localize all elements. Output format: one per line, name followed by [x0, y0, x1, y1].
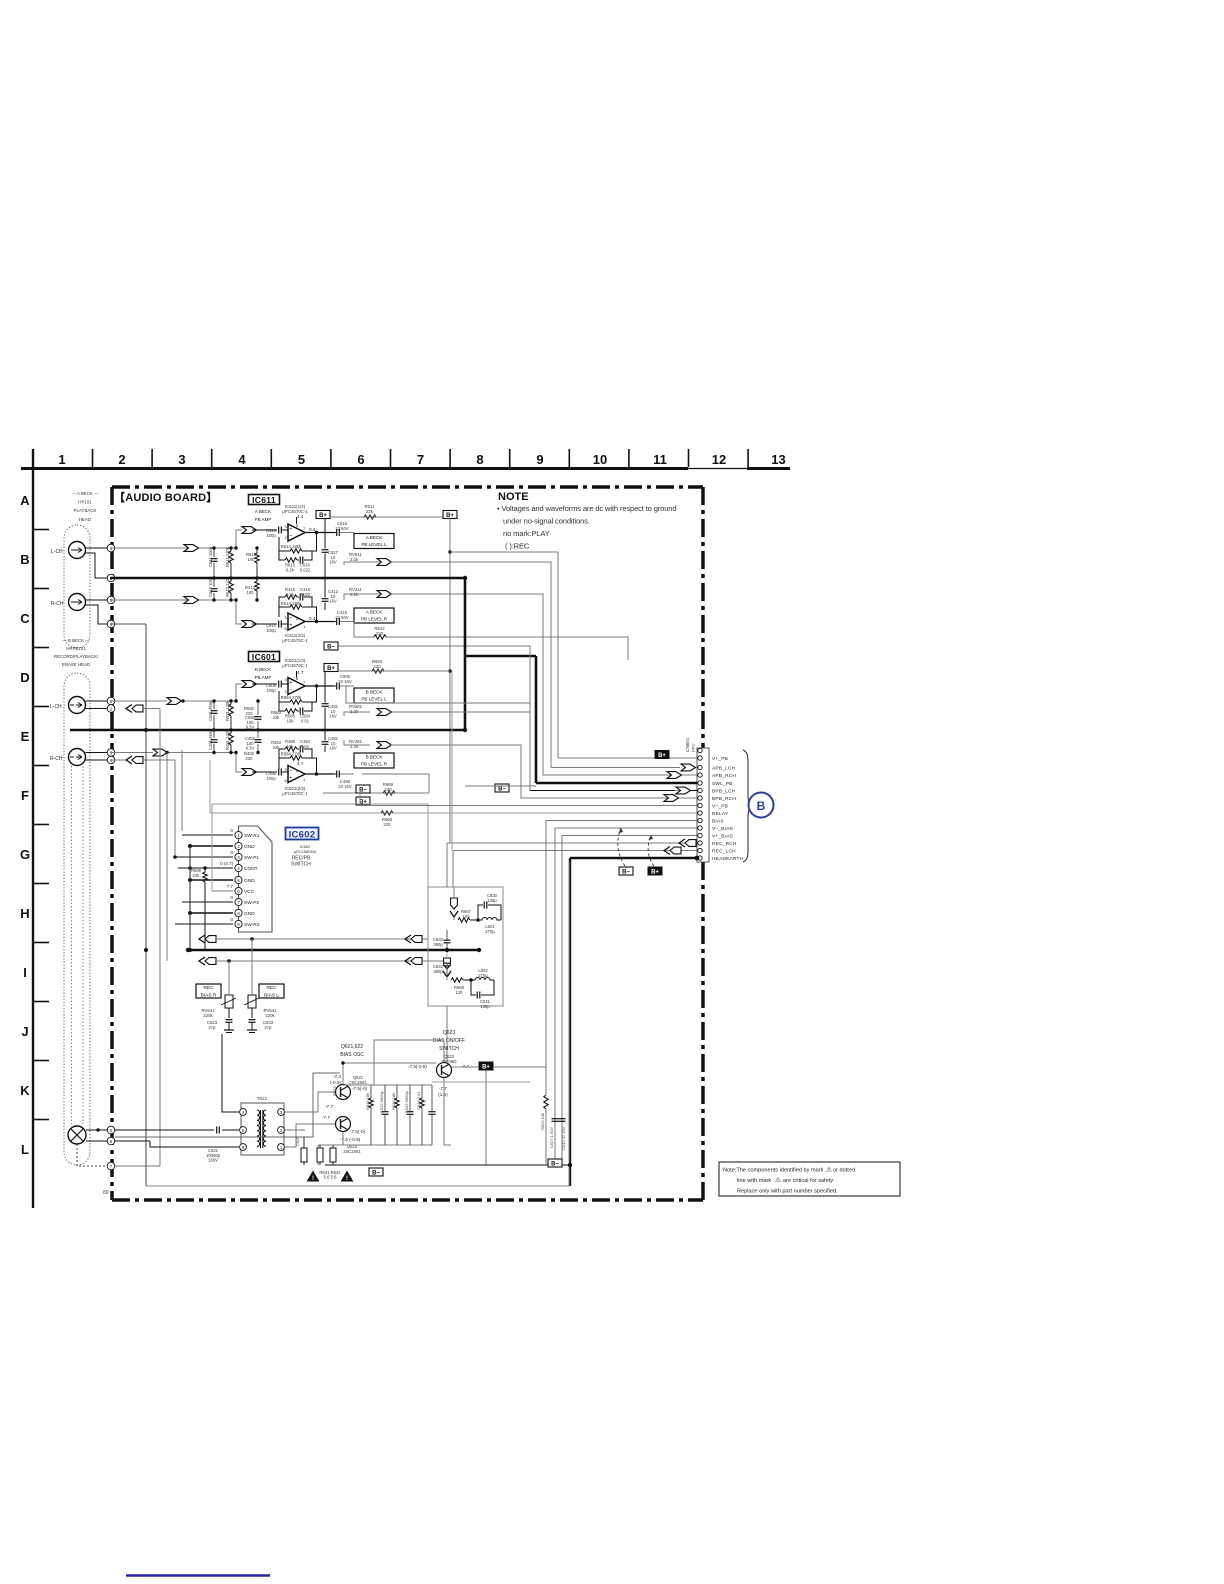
wire V+_PB vertical [557, 552, 559, 758]
svg-text:SW-R1: SW-R1 [244, 833, 260, 839]
svg-text:2.2k: 2.2k [350, 557, 359, 562]
connector pin V-_PB [698, 803, 702, 807]
thick ground bus row B [110, 577, 465, 580]
wire V+_BIAS [562, 836, 697, 1166]
wire to op-amp input [214, 530, 242, 548]
supply tag B+ at connector [655, 751, 669, 759]
svg-text:0.4: 0.4 [309, 616, 316, 621]
svg-text:RECORD/PLAYBACK/: RECORD/PLAYBACK/ [54, 654, 99, 659]
connector pin RELAY [698, 811, 702, 815]
IC602 body [239, 826, 273, 932]
svg-text:BIAS: BIAS [712, 819, 724, 825]
thick ground bus vertical [464, 578, 467, 730]
svg-text:0.01: 0.01 [301, 744, 310, 749]
wire bias osc to Q623 [374, 1040, 444, 1085]
audio board dash-dot border right upper [701, 487, 705, 748]
T621 pin 6 [240, 1144, 247, 1151]
svg-text:2SA950: 2SA950 [442, 1059, 458, 1064]
svg-text:R625 18k: R625 18k [365, 1093, 370, 1110]
svg-text:100p: 100p [266, 776, 276, 781]
IC602 pin CONT. [235, 864, 242, 871]
wire RV641 bottom [228, 1008, 230, 1018]
resistor R415 6.2k [285, 595, 297, 599]
ground C633 [247, 1029, 257, 1031]
signal arrow BPB_LCH [676, 787, 691, 794]
wire BPB_LCH staircase [530, 646, 681, 791]
svg-text:B+: B+ [482, 1064, 490, 1070]
wire pin4 to bus [143, 759, 175, 761]
IC602 pin SW-P2 [235, 898, 242, 905]
resistor R485 15k [285, 747, 297, 751]
svg-text:2: 2 [118, 452, 125, 467]
signal arrow down rec R [444, 958, 451, 969]
wire HEADEARTH thick [570, 857, 697, 859]
svg-text:C625 6800p: C625 6800p [404, 1090, 409, 1113]
svg-text:K: K [20, 1083, 30, 1098]
svg-text:B−: B− [551, 1161, 559, 1167]
svg-text:V−_BIAS: V−_BIAS [712, 826, 733, 832]
resistor R612 220 [374, 635, 386, 639]
board pin 3 rec [107, 749, 115, 757]
supply tag B+ IC601 [324, 664, 338, 672]
wire pin2 to bus [143, 708, 160, 710]
wire V+ PB feed [450, 551, 558, 553]
svg-text:100: 100 [248, 557, 256, 562]
wire rec pin1 to arrow [110, 700, 167, 702]
signal arrow IC601 R input [242, 769, 257, 776]
svg-text:(1.5): (1.5) [438, 1092, 448, 1097]
svg-text:BIAS L: BIAS L [264, 992, 279, 998]
svg-text:or dotted: or dotted [833, 1168, 855, 1174]
wire IC602 SW-P2 [182, 901, 233, 903]
svg-text:BIAS ON/OFF: BIAS ON/OFF [433, 1038, 465, 1044]
erase head coil [68, 1126, 86, 1144]
bus wire from rec R [166, 753, 168, 962]
capacitor C412 10 16V [322, 598, 329, 600]
svg-text:89: 89 [103, 1190, 109, 1196]
svg-text:4: 4 [238, 452, 246, 467]
board pin 1 [107, 544, 115, 552]
wire APB_RCH staircase [389, 594, 672, 775]
signal arrow PB LEVEL L out [377, 559, 392, 566]
signal arrow IC601 L input [242, 681, 257, 688]
svg-text:-7.7: -7.7 [325, 1104, 333, 1109]
wire T621 pin6 [150, 1141, 239, 1147]
board pin 7 shield [107, 1162, 115, 1170]
IC602 pin SW-R2 [235, 920, 242, 927]
grid row tick [33, 647, 49, 649]
svg-text:R623: R623 [332, 1086, 337, 1096]
playback head R-CH coil [69, 594, 86, 611]
signal arrow APB_LCH [681, 764, 696, 771]
svg-text:F: F [21, 788, 29, 803]
label box A BECK PB LEVEL L [354, 534, 394, 549]
svg-text:BPB_RCH: BPB_RCH [712, 796, 736, 802]
wire B- rail to x530 [338, 645, 530, 647]
filter network outline [428, 887, 503, 1006]
svg-text:R611 120k: R611 120k [225, 546, 230, 567]
svg-text:V+_PB: V+_PB [712, 756, 728, 762]
capacitor C481 10 16V [322, 703, 329, 705]
svg-text:IC611: IC611 [252, 495, 276, 505]
wire IC602 GND 2 [190, 845, 233, 847]
svg-text:11: 11 [653, 452, 667, 467]
capacitor C416 0.022 [299, 594, 301, 601]
wire rec L-CH to pin 1 [86, 700, 111, 702]
bias osc feedback rails [343, 1084, 432, 1086]
svg-text:15k: 15k [287, 744, 295, 749]
wire C415 down [354, 622, 374, 638]
wire erase return [115, 1140, 150, 1142]
T621 pin 3 [278, 1109, 285, 1116]
connector pin 0 [698, 748, 702, 752]
bus wire from rec pin4 [174, 760, 176, 855]
op-amp supply lead IC601 [296, 671, 298, 678]
wire C613 to op-amp [282, 529, 288, 531]
connector pin APB_RCH [698, 773, 702, 777]
capacitor C632 390p upper [446, 934, 448, 938]
signal arrow rec R [153, 749, 168, 756]
grid column tick [211, 449, 213, 467]
svg-text:4.7: 4.7 [297, 761, 304, 766]
potentiometer RV641 220k [225, 995, 233, 1008]
svg-text:SW-P2: SW-P2 [244, 900, 259, 906]
signal arrow rec L [167, 698, 182, 705]
svg-text:0.01: 0.01 [301, 719, 310, 724]
inverting input wire IC601L [279, 691, 285, 711]
wire rec path R [216, 960, 447, 962]
rail wire mid 1 [451, 671, 453, 851]
svg-text:B+: B+ [446, 513, 454, 519]
wire T621 to Q621 base [285, 1092, 335, 1112]
wire C608 to op-amp [282, 683, 288, 685]
thick ground bus row D [70, 729, 465, 732]
wire to C631 [471, 980, 476, 995]
svg-text:2SC2061: 2SC2061 [349, 1080, 367, 1085]
connector pin SWL_PB [698, 781, 702, 785]
feedback node wire R [312, 607, 317, 622]
wire RV541 top [251, 939, 253, 995]
svg-text:+: + [289, 623, 292, 629]
svg-text:3: 3 [178, 452, 185, 467]
wire RV581 wiper [344, 712, 370, 716]
wire IC601R out [362, 774, 429, 793]
wire L-CH to pin 1 [86, 547, 111, 549]
svg-text:4.7: 4.7 [297, 670, 304, 675]
grid row tick [33, 1001, 49, 1003]
capacitor C415 22 50V output [336, 618, 338, 625]
audio board dash-dot border right lower [701, 862, 705, 1200]
svg-text:APB_LCH: APB_LCH [712, 766, 736, 772]
svg-text:C626 6800p: C626 6800p [379, 1090, 384, 1113]
grid column tick [270, 449, 272, 467]
svg-text:B+: B+ [327, 666, 335, 672]
connector pin V+_PB [698, 756, 702, 760]
connector destination circled B [749, 793, 774, 818]
svg-text:B−: B− [359, 787, 367, 793]
label box B BECK PB LEVEL L [354, 688, 394, 703]
grid row tick [33, 765, 49, 767]
svg-text:16V: 16V [329, 714, 337, 719]
grid column tick [92, 449, 94, 467]
capacitor C581 390p shunt [211, 710, 218, 712]
svg-text:6.3V: 6.3V [246, 725, 255, 730]
svg-text:IC602: IC602 [289, 830, 316, 841]
connector pin HEADEARTH [698, 856, 702, 860]
resistor R584 270k [290, 700, 302, 704]
supply tag B- near C627 [548, 1159, 562, 1167]
svg-text:( ):REC: ( ):REC [505, 542, 530, 551]
svg-text:⚠: ⚠ [775, 1176, 781, 1184]
capacitor C611 input shunt [211, 558, 218, 560]
svg-text:B: B [757, 799, 766, 813]
wire arrow to C614 [252, 623, 277, 625]
svg-text:SWL_PB: SWL_PB [712, 781, 733, 787]
wire BIAS [546, 821, 697, 1068]
wire IC602 SW-R1 [182, 834, 233, 836]
svg-text:220: 220 [383, 822, 391, 827]
svg-text:220k: 220k [203, 1013, 213, 1018]
signal arrow rec L return [126, 705, 132, 713]
wire REC_LCH down [452, 851, 454, 888]
op-amp IC601 1/2 [288, 678, 305, 695]
svg-text:L-CH: L-CH [50, 704, 62, 710]
svg-text:135p: 135p [480, 1004, 490, 1009]
svg-text:• Voltages and waveforms are d: • Voltages and waveforms are dc with res… [497, 504, 676, 513]
inverting input wire [279, 537, 285, 560]
svg-text:135p: 135p [487, 898, 497, 903]
wire pin1 to arrow [110, 547, 184, 549]
svg-text:R626 18k: R626 18k [391, 1093, 396, 1110]
svg-text:【AUDIO BOARD】: 【AUDIO BOARD】 [114, 491, 217, 504]
IC602 pin VCC [235, 887, 242, 894]
capacitor C627 1 50V [552, 1118, 559, 1120]
svg-text:are critical for safety.: are critical for safety. [783, 1178, 835, 1184]
left margin rule [32, 449, 34, 1208]
feedback branch wire [304, 551, 312, 560]
svg-text:390p: 390p [433, 942, 443, 947]
svg-text:⚠: ⚠ [826, 1166, 832, 1174]
resistor R613 100 [255, 553, 259, 563]
svg-text:RELAY: RELAY [712, 811, 729, 817]
capacitor C482b 10 16V [322, 741, 329, 743]
capacitor C631 135p [476, 992, 478, 999]
bus wire from rec pin2 [159, 709, 161, 1167]
svg-text:GND: GND [244, 878, 255, 884]
connector pin BPB_RCH [698, 796, 702, 800]
svg-text:PLAYBACK: PLAYBACK [74, 508, 97, 513]
svg-text:NOTE: NOTE [498, 491, 529, 503]
supply tag B+ jumper [648, 867, 662, 875]
feedback node wire IC601R [312, 758, 317, 774]
wire HEADEARTH vertical thick [569, 858, 571, 1186]
IC601 R output wire [305, 773, 334, 775]
svg-text:SW-R2: SW-R2 [244, 922, 260, 928]
feedback node wire IC601L [312, 686, 317, 702]
wire rec R-CH to pin 3 [86, 752, 111, 754]
board pin 4 [107, 620, 115, 628]
label box B BECK PB LEVEL R [354, 753, 394, 768]
svg-text:−: − [289, 768, 292, 774]
transformer T621 core [260, 1110, 262, 1148]
svg-text:A BECK: A BECK [255, 509, 271, 514]
op-amp IC611 2/2 [288, 613, 305, 630]
capacitor C481 390p shunt [211, 739, 218, 741]
grid column tick [449, 449, 451, 467]
supply tag B- bias bottom [369, 1168, 383, 1176]
svg-text:line with mark: line with mark [737, 1178, 771, 1184]
capacitor C623 27p [226, 1019, 233, 1021]
coil L602 270u [471, 978, 494, 981]
svg-text:B BECK: B BECK [255, 667, 272, 672]
ground C623 [224, 1029, 234, 1031]
wire RELAY vertical [209, 760, 211, 813]
wire V-_BIAS [555, 828, 697, 1165]
svg-text:220: 220 [376, 631, 384, 636]
board pin 4 rec [107, 756, 115, 764]
wire to IC601 R input [214, 753, 242, 773]
resistor R614 180k [290, 549, 302, 553]
junction filter mid [445, 948, 449, 952]
board pin 1 rec [107, 697, 115, 705]
signal arrow PB R input [242, 621, 257, 628]
svg-text:μPC4570C-1: μPC4570C-1 [282, 638, 308, 643]
svg-text:Replace only with part number: Replace only with part number specified. [737, 1189, 838, 1195]
supply tag B+ bias switch [479, 1062, 493, 1070]
wire erase head feed [115, 1073, 340, 1137]
svg-text:+: + [289, 526, 292, 532]
T621 pin 4 [240, 1109, 247, 1116]
svg-text:0.022: 0.022 [300, 568, 311, 573]
svg-text:4.4: 4.4 [297, 514, 304, 519]
svg-text:no mark:PLAY: no mark:PLAY [503, 529, 550, 538]
wire R-CH to pin 3 [86, 599, 111, 601]
IC601 L output wire [305, 685, 334, 687]
svg-text:Note:The components identified: Note:The components identified by mark [723, 1168, 824, 1174]
svg-text:L: L [21, 1142, 29, 1157]
svg-text:16V: 16V [329, 746, 337, 751]
resistor bias network 0 [369, 1098, 373, 1108]
svg-text:J: J [21, 1024, 28, 1039]
wire R669 row [323, 792, 429, 794]
svg-text:V+_BIAS: V+_BIAS [712, 834, 733, 840]
svg-text:V−_PB: V−_PB [712, 804, 728, 810]
wire RV541 bottom [251, 1008, 253, 1018]
safety mark R642 [342, 1172, 353, 1182]
wire APB_LCH staircase [389, 562, 551, 768]
svg-text:BPB_LCH: BPB_LCH [712, 789, 736, 795]
svg-text:+: + [289, 775, 292, 781]
supply tag B- row E [356, 785, 370, 793]
svg-text:10: 10 [593, 452, 607, 467]
audio board dash-dot border left [110, 487, 114, 1200]
svg-text:27p: 27p [208, 1025, 216, 1030]
wire RV611 wiper [344, 562, 389, 565]
capacitor C630 135p [483, 902, 485, 909]
supply tag B+ row E [356, 797, 370, 805]
svg-text:B+: B+ [658, 753, 666, 759]
wire erase head to pin 5 [86, 1129, 110, 1131]
connector pin BIAS [698, 818, 702, 822]
record head HRPE101 outline [64, 673, 90, 1165]
svg-text:-7.3: -7.3 [333, 1074, 341, 1079]
inverting input wire IC601R [279, 749, 285, 769]
capacitor C642 47 16V [559, 1118, 566, 1120]
svg-text:22k: 22k [273, 715, 281, 720]
svg-text:HRPE101: HRPE101 [66, 646, 86, 651]
record head R-CH coil [69, 749, 86, 766]
resistor R612 120k [229, 581, 233, 593]
signal arrow BPB_RCH [664, 795, 679, 802]
svg-text:R-CH: R-CH [50, 756, 63, 762]
svg-text:−: − [289, 534, 292, 540]
svg-text:C: C [20, 611, 30, 626]
svg-text:R584 270k: R584 270k [281, 695, 303, 700]
shield wire to pin 7 [77, 1144, 107, 1166]
wire Q621 collector to Q623 [343, 1063, 436, 1084]
svg-text:C611 100p: C611 100p [208, 546, 213, 567]
svg-text:R584 270k: R584 270k [281, 752, 303, 757]
signal arrow B PB L out [377, 709, 392, 716]
connector pin APB_LCH [698, 765, 702, 769]
grid column tick [628, 449, 630, 467]
svg-text:-7.5(-0.9): -7.5(-0.9) [408, 1064, 427, 1069]
svg-text:270μ: 270μ [485, 929, 495, 934]
capacitor C633 27p [249, 1019, 256, 1021]
column header rule [21, 467, 688, 470]
wire Q622 emitter [342, 1132, 344, 1145]
svg-text:390p: 390p [433, 969, 443, 974]
footer rule [126, 1574, 270, 1576]
svg-text:6: 6 [357, 452, 364, 467]
wire to R667 [453, 917, 455, 920]
connector pin REC_RCH [698, 841, 702, 845]
svg-text:100p: 100p [266, 688, 276, 693]
svg-text:16V: 16V [329, 599, 337, 604]
svg-text:0.022: 0.022 [300, 592, 311, 597]
svg-text:R625 10k: R625 10k [540, 1113, 545, 1130]
wire BPB_RCH to pin [521, 797, 663, 799]
resistor R660 220 [381, 811, 393, 815]
wire T621 to Q622 base [285, 1124, 335, 1147]
svg-text:ERASE HEAD: ERASE HEAD [62, 662, 90, 667]
playback head L-CH coil [69, 542, 86, 559]
svg-text:5: 5 [298, 452, 305, 467]
svg-text:REC: REC [266, 985, 277, 991]
signal arrow rec mute L [199, 935, 205, 943]
svg-text:27p: 27p [264, 1025, 272, 1030]
bus wire to SW-R1 [181, 750, 183, 831]
wire Q623 collector down [443, 1078, 445, 1145]
svg-text:R614 180k: R614 180k [281, 601, 303, 606]
svg-text:C642 47 16V: C642 47 16V [561, 1126, 566, 1150]
IC602 ground rail [189, 846, 191, 950]
resistor R484 270k [290, 756, 302, 760]
svg-text:100: 100 [247, 590, 255, 595]
svg-text:!: ! [346, 1176, 348, 1182]
connector pin BPB_LCH [698, 788, 702, 792]
svg-text:B+: B+ [319, 513, 327, 519]
grid row tick [33, 706, 49, 708]
supply rail B+ wire [330, 516, 443, 518]
wire rec pin3 to arrow [110, 752, 153, 754]
capacitor C642 390p lower [444, 962, 451, 964]
op-amp R output wire [305, 621, 334, 623]
signal arrow B PB R out [377, 742, 392, 749]
audio board dash-dot border top [112, 485, 703, 489]
IC602 pin GND [235, 876, 242, 883]
svg-text:B−: B− [622, 869, 630, 875]
